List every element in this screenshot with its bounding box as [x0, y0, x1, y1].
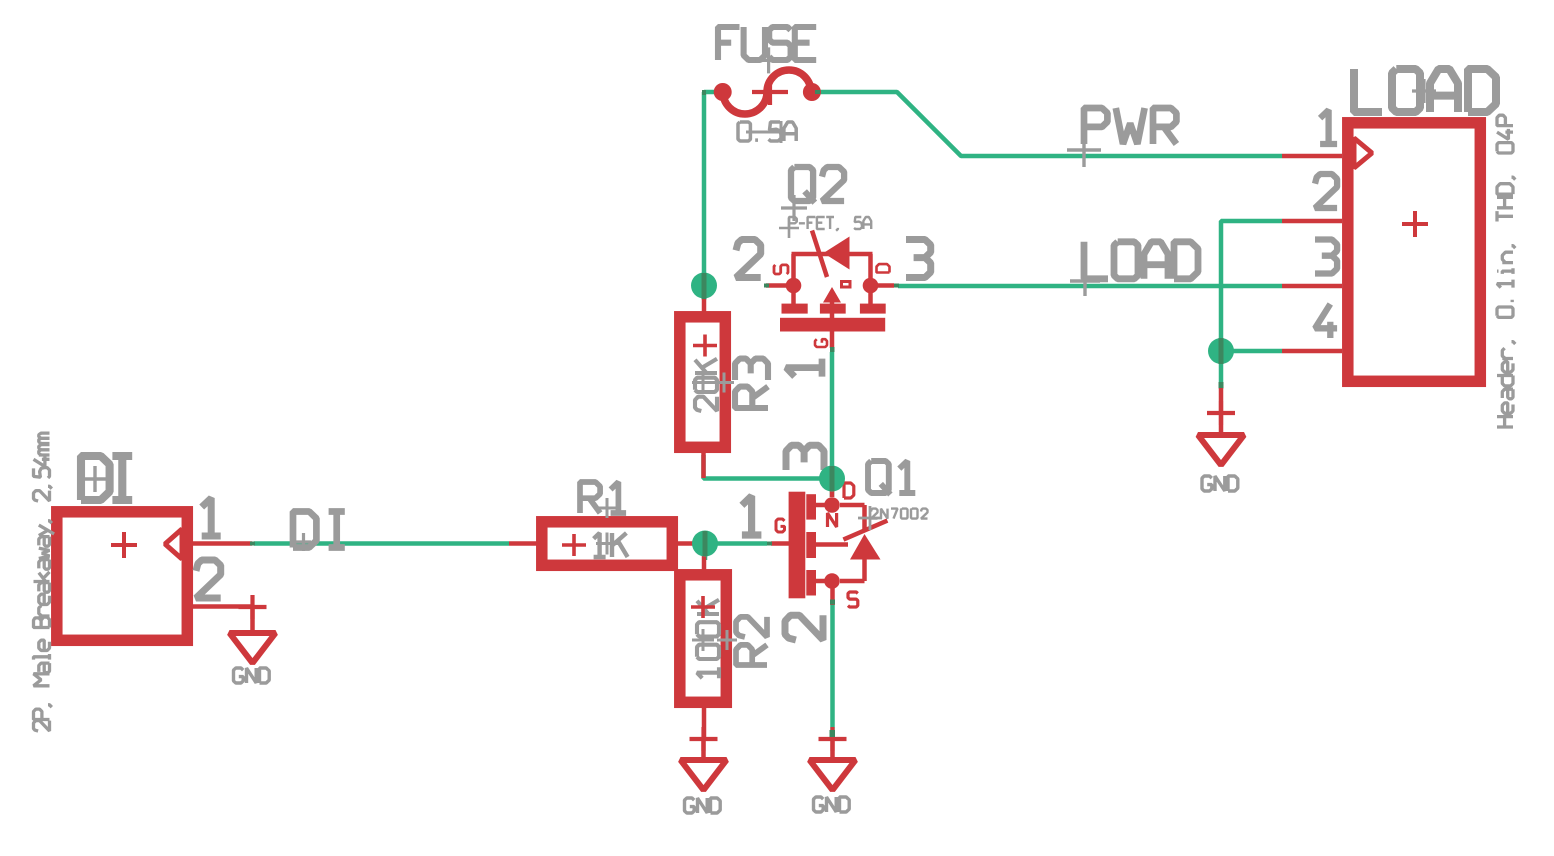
R1 origin cross — [596, 498, 618, 555]
junction node A — [691, 273, 717, 299]
net label LOAD — [1070, 242, 1198, 296]
transistor Q2 symbol (P-FET) — [766, 231, 894, 349]
resistor R3 symbol — [680, 286, 726, 478]
wire R1 to Q1 gate — [693, 541, 767, 546]
resistor R1 symbol — [509, 522, 705, 566]
value 0.5A — [738, 121, 796, 143]
wire LOAD GND stub — [1219, 386, 1224, 435]
value 2N7002 — [858, 506, 928, 530]
label FUSE — [718, 27, 816, 73]
junction node B — [692, 531, 718, 557]
wire Q2 gate to node C — [830, 352, 835, 479]
Q1 pin name G — [776, 519, 785, 532]
label R3 — [735, 359, 768, 408]
net label PWR — [1067, 108, 1176, 167]
resistor R2 symbol — [680, 548, 727, 737]
LOAD pin 1 number — [1320, 110, 1337, 144]
junction node D — [1208, 338, 1234, 364]
connector DI symbol — [57, 512, 252, 641]
ground — [1198, 401, 1244, 491]
wire DI pin1 to R1 (net DI) — [254, 541, 509, 546]
wire R3 bottom to node C — [704, 455, 833, 479]
ground — [681, 727, 727, 813]
wire node C to Q1 drain — [830, 479, 835, 498]
label R2 — [736, 617, 767, 665]
ground — [230, 595, 276, 683]
R2 origin cross — [692, 629, 737, 651]
junction node C — [819, 466, 845, 492]
wire Q2 drain to LOAD pin3 (net LOAD) — [898, 284, 1282, 289]
Q1 pin name D — [844, 483, 854, 498]
DI pin 2 number — [196, 560, 221, 598]
wire LOAD pin2 to pin4 and GND — [1221, 221, 1282, 389]
DI description text — [34, 433, 55, 731]
Q1 channel letter N — [828, 513, 837, 527]
R3 value 20K — [693, 335, 717, 412]
connector LOAD symbol — [1282, 123, 1480, 382]
label R1 — [580, 482, 626, 513]
LOAD pin 2 number — [1315, 174, 1337, 208]
Q1 pin 1 number — [742, 496, 762, 535]
Q2 pin 2 number — [736, 240, 761, 278]
label DI — [81, 456, 132, 500]
LOAD pin 3 number — [1315, 240, 1337, 274]
Q2 pin 1 number — [786, 359, 822, 377]
wire fuse-right to LOAD pin1 (net PWR) — [816, 92, 1282, 156]
wire Q1 source to GND — [830, 604, 835, 736]
LOAD pin 4 number — [1315, 304, 1337, 338]
Q1 pin name S — [848, 592, 858, 607]
DI pin 1 number — [202, 498, 221, 536]
net label DI — [293, 512, 345, 552]
Q1 pin 3 number — [786, 445, 824, 470]
value P-FET, 5A — [779, 217, 871, 238]
R3 origin cross — [692, 372, 734, 394]
Q1 pin 2 number — [785, 615, 823, 640]
R1 value 1K — [562, 533, 628, 557]
wire junction B down to R2 — [703, 544, 708, 561]
R2 value 100K — [691, 596, 719, 678]
wire fuse-left to junction A (net PWR_IN) — [704, 92, 719, 286]
transistor Q1 symbol (2N7002) — [771, 480, 887, 605]
label Q2 — [781, 167, 844, 221]
Q2 pin name S — [774, 265, 788, 274]
wire junction A down to R3 — [702, 286, 707, 301]
Q2 pin name D — [877, 264, 890, 272]
Q2 pin name G — [815, 339, 827, 347]
ground — [810, 727, 856, 812]
pin overlap marks — [250, 90, 1224, 737]
fuse F1 symbol — [714, 70, 821, 114]
Q2 pin 3 number — [906, 240, 931, 278]
label Q1 — [868, 461, 915, 495]
label LOAD — [1354, 69, 1496, 112]
LOAD description text — [1497, 115, 1515, 427]
